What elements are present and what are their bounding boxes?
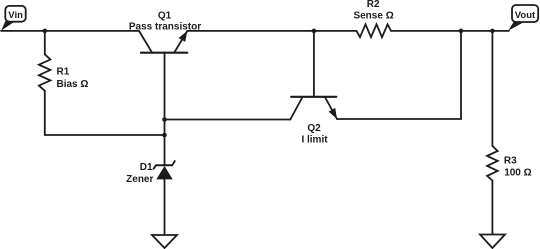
svg-text:R1: R1: [57, 67, 70, 78]
node Vin flag: [1, 6, 26, 31]
wire: top rail from Q1 emitter to R2: [187, 30, 356, 32]
junction dot: Q2 emitter riser on top rail: [459, 29, 464, 34]
wire: top rail from R2 to Vout: [391, 30, 509, 32]
wire: R1 bottom to Q1 base node: [45, 134, 165, 136]
junction dot: Q2 base on top rail: [312, 29, 317, 34]
node Vout flag: [508, 5, 538, 31]
resistor R2: [353, 0, 393, 37]
wire: Q2 emitter to riser: [337, 118, 461, 120]
svg-text:Bias Ω: Bias Ω: [57, 79, 89, 90]
ground: below R3: [480, 235, 505, 249]
wire: Q2 collector to Q1 base: [165, 119, 291, 121]
resistor R1: [39, 31, 89, 135]
svg-text:R3: R3: [504, 156, 517, 167]
wire: zener to ground: [164, 179, 166, 235]
svg-text:I limit: I limit: [301, 134, 328, 145]
wire: Q1 base down to zener: [164, 53, 166, 165]
diode D1 zener: [126, 161, 175, 185]
transistor Q2: [290, 31, 337, 145]
junction dot: Vin / R1 node: [43, 29, 48, 34]
svg-text:Vout: Vout: [515, 10, 536, 21]
svg-text:R2: R2: [367, 0, 380, 10]
svg-text:Vin: Vin: [8, 10, 23, 21]
ground: below D1: [152, 235, 177, 248]
resistor R3: [487, 31, 532, 235]
wire: riser up to top rail: [460, 31, 462, 119]
junction dot: Q1 base / Q2 collector: [162, 117, 167, 122]
svg-text:Q2: Q2: [307, 123, 321, 134]
junction dot: Q1 base / R1: [162, 133, 167, 138]
svg-text:D1: D1: [140, 162, 153, 173]
transistor Q1: [129, 10, 201, 52]
svg-text:Zener: Zener: [126, 174, 153, 185]
svg-text:Pass transistor: Pass transistor: [129, 22, 201, 33]
junction dot: R3 on top rail: [490, 29, 495, 34]
svg-text:Q1: Q1: [158, 10, 172, 21]
svg-text:Sense Ω: Sense Ω: [353, 11, 393, 22]
wire: top rail from Vin to Q1 collector: [1, 30, 139, 32]
svg-text:100 Ω: 100 Ω: [504, 167, 531, 178]
